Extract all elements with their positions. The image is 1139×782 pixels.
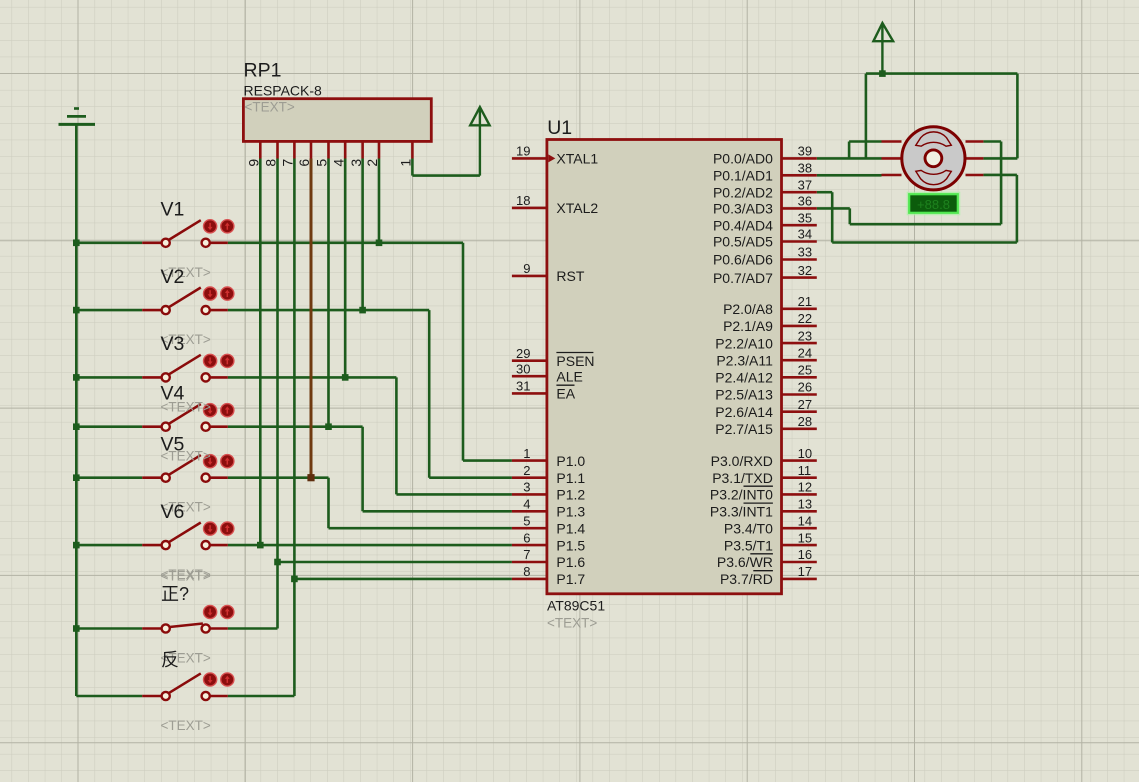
svg-text:39: 39 xyxy=(798,144,812,159)
pin 10 P3.0/RXD xyxy=(711,446,817,469)
pin 29 PSEN xyxy=(512,346,595,369)
svg-text:30: 30 xyxy=(516,361,530,376)
svg-text:+88.8: +88.8 xyxy=(917,197,950,212)
svg-text:P1.3: P1.3 xyxy=(556,504,585,520)
power VCC arrow (motor) xyxy=(873,23,893,74)
svg-text:P1.2: P1.2 xyxy=(556,487,585,503)
svg-text:P0.3/AD3: P0.3/AD3 xyxy=(713,201,773,217)
pin 5 P1.4 xyxy=(512,513,586,536)
wire net P0.2 via bottom loop to motor bottom-right xyxy=(817,175,1017,243)
motor stub pins xyxy=(882,142,984,176)
pin 17 P3.7/RD xyxy=(720,564,817,587)
pin XTAL1 arrow marker xyxy=(548,154,555,162)
svg-text:15: 15 xyxy=(798,530,812,545)
wire net reverse switch / RP1.7 / P1.7 xyxy=(228,159,512,697)
svg-text:38: 38 xyxy=(798,161,812,176)
svg-text:18: 18 xyxy=(516,193,530,208)
RP1 pin 2 xyxy=(364,141,380,166)
svg-text:PSEN: PSEN xyxy=(556,353,594,369)
pin 26 P2.5/A13 xyxy=(715,380,817,403)
ground xyxy=(59,109,96,125)
svg-text:P2.4/A12: P2.4/A12 xyxy=(715,370,773,386)
pin 3 P1.2 xyxy=(512,480,586,503)
svg-text:<TEXT>: <TEXT> xyxy=(547,616,597,631)
pin 30 ALE xyxy=(512,361,583,384)
svg-text:7: 7 xyxy=(523,547,530,562)
svg-text:P0.0/AD0: P0.0/AD0 xyxy=(713,151,773,167)
svg-text:EA: EA xyxy=(556,386,575,402)
svg-text:P2.1/A9: P2.1/A9 xyxy=(723,318,773,334)
svg-text:1: 1 xyxy=(523,446,530,461)
pin 19 XTAL1 xyxy=(512,144,598,167)
svg-text:P0.2/AD2: P0.2/AD2 xyxy=(713,184,773,200)
resistor pack RP1 body xyxy=(243,99,431,142)
svg-text:V5: V5 xyxy=(161,433,185,455)
pin 4 P1.3 xyxy=(512,497,586,520)
svg-text:P3.1/TXD: P3.1/TXD xyxy=(712,470,773,486)
svg-text:P2.5/A13: P2.5/A13 xyxy=(715,387,773,403)
svg-text:9: 9 xyxy=(246,159,262,167)
switch reverse xyxy=(76,673,234,700)
svg-text:P0.7/AD7: P0.7/AD7 xyxy=(713,270,773,286)
svg-text:P0.1/AD1: P0.1/AD1 xyxy=(713,168,773,184)
svg-text:5: 5 xyxy=(523,513,530,528)
svg-text:<TEXT>: <TEXT> xyxy=(245,100,295,115)
svg-text:37: 37 xyxy=(798,177,812,192)
RP1 pin 9 xyxy=(246,141,262,166)
switch V4 xyxy=(76,404,234,431)
svg-text:反: 反 xyxy=(161,650,179,670)
svg-text:P1.4: P1.4 xyxy=(556,520,585,536)
pin 1 P1.0 xyxy=(512,446,586,469)
svg-text:V4: V4 xyxy=(161,382,185,404)
switch V1 xyxy=(76,220,234,247)
wire VCC rail to motor xyxy=(866,70,1018,158)
svg-text:28: 28 xyxy=(798,414,812,429)
pin 22 P2.1/A9 xyxy=(723,311,817,334)
svg-text:8: 8 xyxy=(523,564,530,579)
svg-text:V2: V2 xyxy=(161,266,185,288)
pin 7 P1.6 xyxy=(512,547,586,570)
svg-text:P3.0/RXD: P3.0/RXD xyxy=(711,453,773,469)
svg-text:RST: RST xyxy=(556,268,584,284)
pin 6 P1.5 xyxy=(512,530,586,553)
switch V5 xyxy=(76,455,234,482)
pin 28 P2.7/A15 xyxy=(715,414,817,437)
switch V3 xyxy=(76,354,234,381)
svg-text:35: 35 xyxy=(798,210,812,225)
svg-text:XTAL2: XTAL2 xyxy=(556,200,598,216)
wire net forward switch / RP1.8 / P1.6 xyxy=(73,159,512,632)
svg-text:6: 6 xyxy=(523,530,530,545)
svg-text:P2.2/A10: P2.2/A10 xyxy=(715,335,773,351)
svg-text:P2.7/A15: P2.7/A15 xyxy=(715,421,773,437)
pin 13 P3.3/INT1 xyxy=(710,497,817,520)
RP1 pin 6 xyxy=(296,141,312,166)
wire net V1 / RP1.2 / P1.0 xyxy=(73,159,512,461)
svg-text:24: 24 xyxy=(798,345,812,360)
svg-text:34: 34 xyxy=(798,227,812,242)
svg-text:10: 10 xyxy=(798,446,812,461)
pin 25 P2.4/A12 xyxy=(715,363,817,386)
svg-text:U1: U1 xyxy=(547,117,572,139)
RP1 pin 7 xyxy=(280,141,296,166)
svg-text:3: 3 xyxy=(348,159,364,167)
svg-text:1: 1 xyxy=(398,159,414,167)
svg-text:P1.5: P1.5 xyxy=(556,537,585,553)
wire net V2 / RP1.3 / P1.1 xyxy=(73,159,512,478)
pin 12 P3.2/INT0 xyxy=(710,480,817,503)
svg-text:P0.6/AD6: P0.6/AD6 xyxy=(713,252,773,268)
svg-text:14: 14 xyxy=(798,513,812,528)
svg-text:29: 29 xyxy=(516,346,530,361)
svg-text:P1.6: P1.6 xyxy=(556,554,585,570)
svg-text:V1: V1 xyxy=(161,199,185,221)
power VCC arrow (RP1) xyxy=(470,107,489,176)
pin 15 P3.5/T1 xyxy=(724,530,817,553)
svg-text:P0.4/AD4: P0.4/AD4 xyxy=(713,217,773,233)
pin 21 P2.0/A8 xyxy=(723,294,817,317)
svg-text:P3.2/INT0: P3.2/INT0 xyxy=(710,487,773,503)
switch forward (closed) xyxy=(76,605,234,632)
RP1 pin 5 xyxy=(314,141,330,166)
pin 35 P0.4/AD4 xyxy=(713,210,817,233)
svg-text:P2.6/A14: P2.6/A14 xyxy=(715,404,773,420)
svg-text:12: 12 xyxy=(798,480,812,495)
svg-text:32: 32 xyxy=(798,263,812,278)
svg-text:7: 7 xyxy=(280,159,296,167)
wire net V5 / P1.4 xyxy=(73,474,512,528)
svg-text:P1.0: P1.0 xyxy=(556,453,585,469)
pin 37 P0.2/AD2 xyxy=(713,177,817,200)
IC U1 body xyxy=(547,140,782,594)
pin 9 RST xyxy=(512,261,585,284)
wire RP1 pin1 to VCC xyxy=(412,159,480,176)
wire RP1 pin6 to V5 row (brown) xyxy=(307,159,314,482)
svg-text:2: 2 xyxy=(523,463,530,478)
pin 31 EA xyxy=(512,379,576,402)
svg-text:AT89C51: AT89C51 xyxy=(547,597,605,613)
svg-text:31: 31 xyxy=(516,379,530,394)
svg-text:11: 11 xyxy=(798,463,812,478)
svg-text:P3.4/T0: P3.4/T0 xyxy=(724,520,773,536)
pin 23 P2.2/A10 xyxy=(715,328,817,351)
svg-text:V3: V3 xyxy=(161,333,185,355)
svg-text:P1.7: P1.7 xyxy=(556,571,585,587)
svg-text:P2.3/A11: P2.3/A11 xyxy=(716,352,773,368)
RP1 pin 3 xyxy=(348,141,364,166)
pin 38 P0.1/AD1 xyxy=(713,161,817,184)
RP1 pin 1 xyxy=(398,141,414,166)
pin 27 P2.6/A14 xyxy=(715,397,817,420)
svg-text:13: 13 xyxy=(798,497,812,512)
svg-text:P3.3/INT1: P3.3/INT1 xyxy=(710,504,773,520)
svg-text:RP1: RP1 xyxy=(244,60,282,82)
wire GND bus xyxy=(75,124,78,696)
svg-text:P3.6/WR: P3.6/WR xyxy=(717,554,773,570)
RP1 pin 8 xyxy=(263,141,279,166)
pin 34 P0.5/AD5 xyxy=(713,227,817,250)
pin 11 P3.1/TXD xyxy=(712,463,817,486)
svg-text:P1.1: P1.1 xyxy=(556,470,585,486)
svg-text:9: 9 xyxy=(523,261,530,276)
svg-text:25: 25 xyxy=(798,363,812,378)
pin 14 P3.4/T0 xyxy=(724,513,817,536)
wire net V3 / RP1.4 / P1.2 xyxy=(73,159,512,495)
svg-text:27: 27 xyxy=(798,397,812,412)
pin 36 P0.3/AD3 xyxy=(713,194,817,217)
svg-text:P0.5/AD5: P0.5/AD5 xyxy=(713,234,773,250)
pin 18 XTAL2 xyxy=(512,193,598,216)
svg-text:P3.7/RD: P3.7/RD xyxy=(720,571,773,587)
wire net V6 / RP1.9 / P1.5 xyxy=(73,159,512,549)
svg-text:8: 8 xyxy=(263,159,279,167)
svg-text:<TEXT>: <TEXT> xyxy=(161,718,211,733)
svg-text:33: 33 xyxy=(798,245,812,260)
svg-text:19: 19 xyxy=(516,144,530,159)
pin 33 P0.6/AD6 xyxy=(713,245,817,268)
svg-text:26: 26 xyxy=(798,380,812,395)
pin 39 P0.0/AD0 xyxy=(713,144,817,167)
svg-text:V6: V6 xyxy=(161,501,185,523)
svg-text:RESPACK-8: RESPACK-8 xyxy=(244,82,323,98)
svg-text:4: 4 xyxy=(330,159,346,167)
svg-text:3: 3 xyxy=(523,480,530,495)
pin 2 P1.1 xyxy=(512,463,586,486)
svg-text:23: 23 xyxy=(798,328,812,343)
svg-text:P2.0/A8: P2.0/A8 xyxy=(723,301,773,317)
svg-text:XTAL1: XTAL1 xyxy=(556,151,598,167)
motor display +88.8 xyxy=(908,193,960,215)
pin 16 P3.6/WR xyxy=(717,547,817,570)
RP1 pin 4 xyxy=(330,141,346,166)
motor M1 body xyxy=(902,127,965,190)
svg-text:22: 22 xyxy=(798,311,812,326)
wire net V4 / RP1.5 / P1.3 xyxy=(73,159,512,512)
svg-text:2: 2 xyxy=(364,159,380,167)
svg-text:16: 16 xyxy=(798,547,812,562)
svg-text:正?: 正? xyxy=(161,584,189,604)
svg-text:<TEXT>: <TEXT> xyxy=(161,568,211,583)
pin 24 P2.3/A11 xyxy=(716,345,816,368)
svg-text:P3.5/T1: P3.5/T1 xyxy=(724,537,773,553)
switch V2 xyxy=(76,287,234,314)
wire net P0.1 / motor bottom-left xyxy=(817,174,882,177)
svg-text:4: 4 xyxy=(523,497,530,512)
switch V6 xyxy=(76,522,234,549)
pin 8 P1.7 xyxy=(512,564,586,587)
svg-text:5: 5 xyxy=(314,159,330,167)
svg-text:36: 36 xyxy=(798,194,812,209)
wire net P0.0 / motor left xyxy=(817,142,882,159)
svg-text:17: 17 xyxy=(798,564,812,579)
svg-text:ALE: ALE xyxy=(556,368,582,384)
svg-text:21: 21 xyxy=(798,294,812,309)
pin 32 P0.7/AD7 xyxy=(713,263,817,286)
wire net P0.3 to motor top-right xyxy=(817,142,1001,225)
